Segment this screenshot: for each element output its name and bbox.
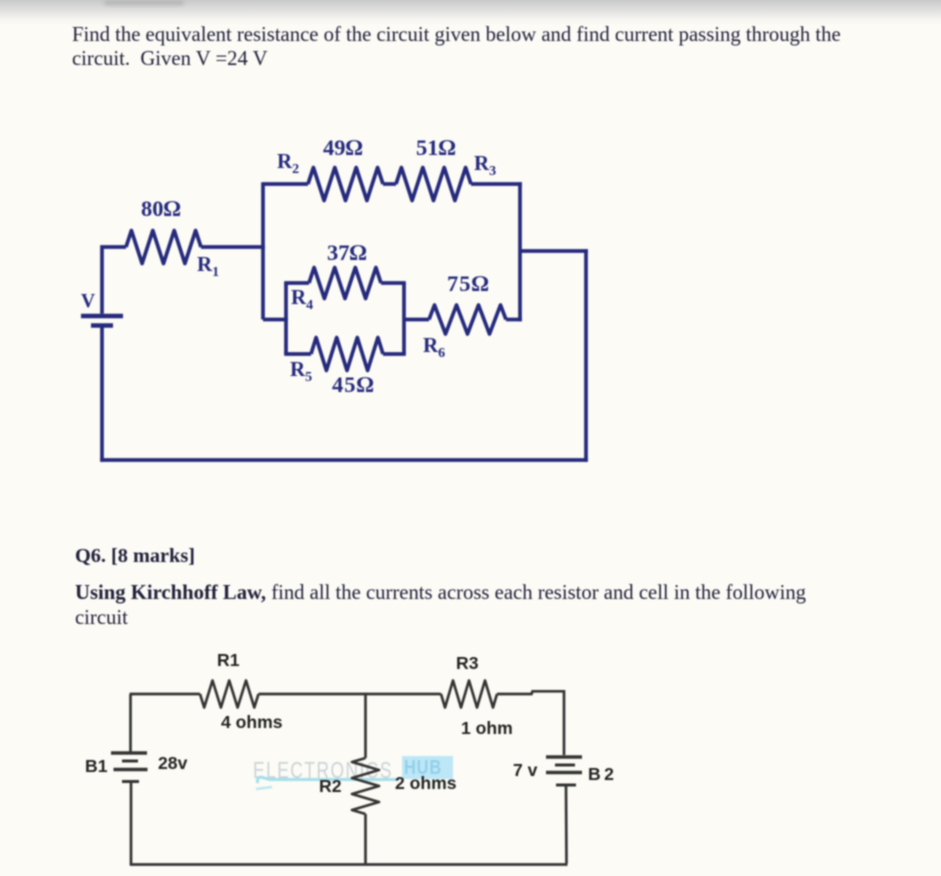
label 4 ohms	[221, 712, 283, 733]
wire R5 branch right lead	[383, 352, 406, 356]
label B1	[85, 756, 108, 777]
resistor R2 49ohm	[308, 168, 383, 201]
wire B1 top lead	[129, 694, 132, 752]
label 1 ohm	[461, 718, 513, 739]
label R3	[474, 151, 496, 180]
resistor R3 1 ohm	[441, 681, 497, 708]
wire between R2 and R3	[383, 182, 396, 186]
wire R3 to right node	[471, 182, 522, 186]
watermark tick mark	[256, 787, 272, 789]
label 45ohm	[332, 372, 375, 398]
label R1 (circuit 2)	[217, 650, 240, 671]
wire middle branch lower	[364, 814, 367, 865]
label V	[81, 291, 95, 313]
wire B2 to bottom rail	[565, 786, 568, 864]
resistor R1 4 ohms	[200, 681, 259, 708]
resistor R2 2 ohms	[352, 758, 379, 814]
wire top rail left (circuit 2)	[131, 694, 200, 696]
label 37ohm	[327, 240, 367, 266]
label 7 v	[513, 760, 537, 781]
wire R1 to R3 across middle node	[259, 693, 442, 696]
question paragraph	[75, 581, 806, 631]
wire parallel block right vertical	[402, 283, 406, 354]
wire bottom rail	[100, 458, 588, 462]
label R6	[423, 333, 445, 362]
wire outer right vertical	[584, 249, 588, 462]
label 2 ohms	[395, 773, 457, 794]
wire battery top to R1	[102, 247, 126, 314]
label 80ohm	[141, 196, 181, 222]
wire top rail left	[263, 182, 308, 186]
label R2 (circuit 2)	[319, 776, 342, 797]
resistor R6 75ohm	[429, 305, 506, 334]
label 51ohm	[416, 135, 456, 161]
wire right node vertical	[518, 182, 522, 321]
wire R5 branch left lead	[284, 352, 311, 356]
watermark ELECTRONICS HUB	[253, 757, 393, 784]
wire R4 branch right lead	[381, 281, 406, 285]
label 28v	[158, 753, 187, 774]
resistor R4 37ohm	[309, 268, 381, 299]
label 75ohm	[447, 271, 490, 297]
resistor R5 45ohm	[311, 338, 383, 371]
label 49ohm	[323, 135, 363, 161]
label R4	[291, 285, 313, 314]
watermark underline swoosh	[257, 777, 398, 783]
battery B1	[111, 753, 148, 782]
wire block to R6	[404, 318, 429, 322]
wire bottom rail (circuit 2)	[130, 863, 568, 866]
wire right node to outer right	[520, 249, 588, 253]
battery V	[81, 316, 123, 326]
problem statement paragraph	[72, 23, 841, 71]
wire battery bottom to rail	[100, 327, 104, 462]
label R1	[197, 252, 219, 281]
heading Q6	[75, 544, 195, 568]
wire middle branch upper	[364, 693, 367, 758]
wire R3 to top right corner	[497, 691, 564, 755]
wire R6 to right node	[506, 318, 522, 322]
wire R1 to left node	[201, 245, 265, 249]
label R5	[290, 357, 312, 386]
wire parallel block left vertical	[284, 283, 288, 354]
battery B2	[546, 757, 582, 785]
resistor R3 51ohm	[396, 168, 471, 201]
label B2	[588, 764, 615, 785]
wire R4 branch left lead	[284, 281, 309, 285]
label R2	[277, 149, 299, 178]
wire B1 to bottom rail	[130, 782, 133, 865]
label R3 (circuit 2)	[456, 653, 479, 674]
wire left node to parallel block	[263, 318, 288, 322]
resistor R1 80ohm	[126, 231, 201, 264]
wire left node vertical	[261, 182, 265, 319]
